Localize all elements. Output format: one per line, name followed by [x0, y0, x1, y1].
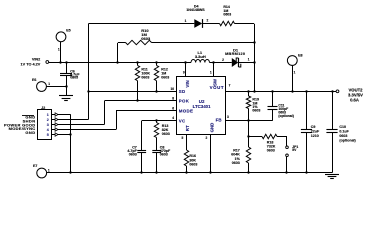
svg-text:1210: 1210 — [311, 134, 319, 138]
svg-text:1: 1 — [48, 168, 50, 172]
svg-text:1: 1 — [58, 48, 60, 52]
svg-text:MBRM120: MBRM120 — [225, 52, 245, 56]
svg-text:0603: 0603 — [161, 76, 169, 80]
svg-text:5: 5 — [47, 133, 49, 137]
svg-text:2: 2 — [47, 118, 49, 122]
svg-text:E7: E7 — [33, 164, 37, 168]
svg-text:0603: 0603 — [223, 13, 231, 17]
svg-text:VIN: VIN — [185, 80, 190, 87]
svg-text:0603: 0603 — [189, 163, 197, 167]
svg-text:(optional): (optional) — [278, 114, 293, 118]
svg-text:GND: GND — [209, 123, 214, 133]
svg-text:POK: POK — [179, 99, 190, 104]
svg-text:3: 3 — [47, 123, 49, 127]
svg-text:VIN2: VIN2 — [32, 57, 40, 61]
svg-text:1: 1 — [294, 71, 296, 75]
svg-text:5V: 5V — [292, 148, 297, 152]
svg-text:1: 1 — [248, 57, 250, 61]
svg-text:MODE: MODE — [179, 109, 193, 114]
svg-text:2: 2 — [206, 136, 208, 140]
svg-text:C9: C9 — [311, 125, 316, 129]
svg-text:1: 1 — [48, 82, 50, 86]
svg-text:0805: 0805 — [70, 76, 78, 80]
svg-text:0.6A: 0.6A — [350, 97, 359, 102]
svg-text:LTC3401: LTC3401 — [193, 104, 212, 109]
svg-text:(optional): (optional) — [339, 138, 356, 142]
svg-text:SW: SW — [213, 78, 218, 86]
svg-text:J2: J2 — [41, 106, 45, 110]
svg-text:0603: 0603 — [339, 134, 347, 138]
svg-text:C10: C10 — [339, 125, 346, 129]
svg-text:2: 2 — [222, 58, 224, 62]
svg-text:0603: 0603 — [162, 132, 170, 136]
svg-text:SD: SD — [179, 89, 186, 94]
svg-text:1N4148WS: 1N4148WS — [186, 8, 205, 12]
svg-text:0603: 0603 — [267, 149, 275, 153]
svg-text:GND: GND — [25, 130, 35, 135]
svg-text:10: 10 — [170, 87, 174, 91]
svg-text:1: 1 — [185, 19, 187, 23]
svg-text:RT: RT — [185, 125, 190, 131]
svg-text:1: 1 — [210, 70, 212, 74]
svg-text:2: 2 — [207, 19, 209, 23]
svg-text:R16: R16 — [189, 154, 196, 158]
svg-text:E8: E8 — [298, 54, 302, 58]
svg-text:5: 5 — [182, 136, 184, 140]
svg-text:22uF: 22uF — [311, 130, 320, 134]
svg-text:0603: 0603 — [232, 161, 240, 165]
svg-text:0603: 0603 — [141, 76, 149, 80]
svg-text:3.3uH: 3.3uH — [195, 54, 206, 59]
svg-text:3: 3 — [227, 115, 229, 119]
svg-text:30K: 30K — [189, 158, 196, 162]
svg-text:4: 4 — [172, 116, 174, 120]
svg-text:0603: 0603 — [160, 153, 168, 157]
svg-text:6: 6 — [172, 106, 174, 110]
svg-text:E6: E6 — [32, 78, 36, 82]
svg-text:4: 4 — [47, 128, 49, 132]
svg-text:8: 8 — [172, 97, 174, 101]
svg-text:0603: 0603 — [141, 36, 151, 41]
svg-text:1: 1 — [47, 113, 49, 117]
svg-text:0603: 0603 — [129, 153, 137, 157]
svg-text:7: 7 — [229, 84, 231, 88]
svg-text:FB: FB — [216, 118, 222, 123]
svg-text:E5: E5 — [66, 29, 70, 33]
svg-text:0.1uF: 0.1uF — [339, 130, 349, 134]
svg-text:1V TO 4.2V: 1V TO 4.2V — [21, 62, 41, 66]
svg-text:9: 9 — [183, 70, 185, 74]
svg-text:VC: VC — [179, 118, 186, 123]
svg-text:0603: 0603 — [252, 109, 260, 113]
